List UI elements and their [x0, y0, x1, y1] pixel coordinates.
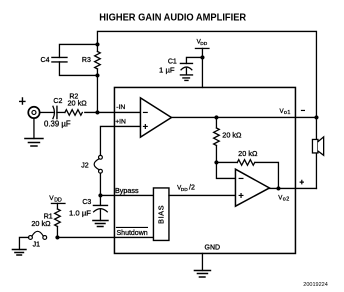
svg-text:Shutdown: Shutdown	[117, 230, 148, 237]
svg-text:BIAS: BIAS	[157, 205, 166, 224]
svg-text:20 kΩ: 20 kΩ	[222, 131, 242, 140]
svg-text:+IN: +IN	[115, 118, 126, 125]
svg-text:J2: J2	[81, 162, 89, 169]
svg-text:C2: C2	[53, 98, 62, 105]
svg-text:20 kΩ: 20 kΩ	[238, 149, 258, 158]
svg-text:DD: DD	[54, 198, 62, 204]
svg-text:-IN: -IN	[116, 104, 125, 111]
svg-text:R3: R3	[82, 57, 91, 64]
svg-text:C4: C4	[41, 57, 50, 64]
svg-text:o2: o2	[283, 196, 290, 202]
svg-text:1.0 µF: 1.0 µF	[69, 208, 91, 217]
svg-text:J1: J1	[33, 241, 41, 248]
svg-text:GND: GND	[205, 244, 221, 251]
svg-text:0.39 µF: 0.39 µF	[44, 119, 71, 128]
svg-text:C3: C3	[82, 199, 91, 206]
svg-text:o1: o1	[284, 110, 291, 116]
svg-text:20 kΩ: 20 kΩ	[67, 99, 87, 108]
svg-text:20 kΩ: 20 kΩ	[31, 219, 51, 228]
svg-text:HIGHER GAIN AUDIO AMPLIFIER: HIGHER GAIN AUDIO AMPLIFIER	[99, 12, 246, 23]
svg-text:20019224: 20019224	[303, 282, 327, 288]
svg-text:1 µF: 1 µF	[159, 65, 175, 74]
svg-text:DD: DD	[181, 187, 188, 193]
svg-text:/2: /2	[189, 184, 195, 191]
svg-text:Bypass: Bypass	[115, 186, 139, 195]
svg-text:DD: DD	[200, 41, 207, 47]
